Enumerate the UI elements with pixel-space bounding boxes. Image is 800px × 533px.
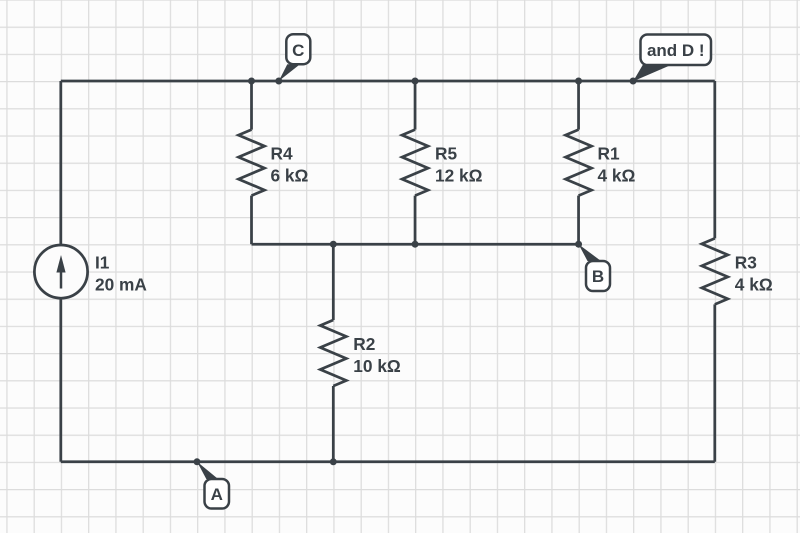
wire R1 top lead (577, 81, 580, 130)
label R2 value (353, 334, 401, 376)
wire R3 bottom lead (713, 304, 716, 461)
wire middle rail (252, 243, 579, 246)
resistor R1 (566, 130, 592, 196)
svg-text:10 kΩ: 10 kΩ (353, 356, 401, 376)
wire R3 top lead (713, 81, 716, 238)
resistor R3 (702, 238, 728, 304)
label I1 value (95, 252, 147, 294)
svg-text:R3: R3 (735, 252, 757, 272)
wire R2 top lead (332, 244, 335, 320)
label R4 value (271, 144, 309, 186)
svg-text:20 mA: 20 mA (95, 274, 147, 294)
node junction dot R2 bottom (330, 458, 337, 465)
node junction dot R2 top (330, 241, 337, 248)
wire left rail (59, 81, 62, 462)
svg-text:4 kΩ: 4 kΩ (735, 274, 773, 294)
wire top rail (61, 80, 715, 83)
svg-text:R2: R2 (353, 334, 375, 354)
node junction dot R1 top (575, 78, 582, 85)
resistor R5 (402, 130, 428, 196)
node flag and-D box (633, 35, 711, 82)
svg-text:and D !: and D ! (647, 41, 705, 60)
node A anchor dot (194, 458, 201, 465)
node C anchor dot (275, 78, 282, 85)
svg-text:6 kΩ: 6 kΩ (271, 166, 309, 186)
node B anchor dot (575, 241, 582, 248)
node D anchor dot (630, 78, 637, 85)
node flag A box (197, 462, 229, 509)
svg-text:C: C (292, 41, 304, 60)
label R1 value (598, 144, 636, 186)
wire bottom rail (61, 460, 715, 463)
node junction dot R5 top (412, 78, 419, 85)
wire R5 top lead (414, 81, 417, 130)
current source I1 (34, 245, 87, 298)
label R3 value (735, 252, 773, 294)
node junction dot R5 bottom (412, 241, 419, 248)
svg-text:R1: R1 (598, 144, 620, 164)
wire R5 bottom lead (414, 196, 417, 245)
svg-text:B: B (592, 267, 604, 286)
svg-text:4 kΩ: 4 kΩ (598, 166, 636, 186)
node flag C box (279, 34, 311, 81)
svg-text:I1: I1 (95, 252, 110, 272)
node junction dot R4 top (248, 78, 255, 85)
svg-text:R4: R4 (271, 144, 293, 164)
wire R4 bottom lead (250, 196, 253, 245)
wire R4 top lead (250, 81, 253, 130)
wire R1 bottom lead (577, 196, 580, 245)
resistor R2 (320, 320, 346, 386)
wire R2 bottom lead (332, 386, 335, 462)
resistor R4 (239, 130, 265, 196)
svg-text:R5: R5 (435, 144, 457, 164)
svg-text:12 kΩ: 12 kΩ (435, 166, 483, 186)
node flag B box (579, 244, 610, 291)
label R5 value (435, 144, 483, 186)
svg-text:A: A (211, 485, 223, 504)
